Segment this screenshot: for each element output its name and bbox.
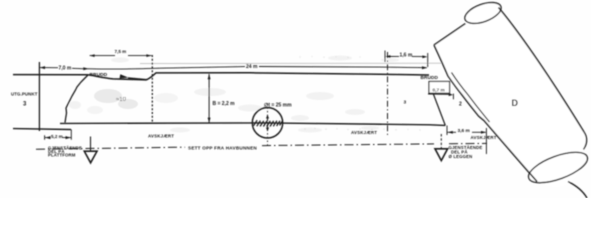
svg-text:UTG.PUNKT: UTG.PUNKT	[11, 92, 38, 97]
svg-text:3: 3	[23, 102, 27, 108]
svg-text:AVSKJÆRT: AVSKJÆRT	[148, 134, 174, 139]
svg-text:2: 2	[459, 102, 462, 108]
svg-text:7,0 m: 7,0 m	[59, 65, 72, 71]
svg-text:PLATTFORM: PLATTFORM	[48, 153, 76, 158]
svg-text:≈10: ≈10	[116, 97, 127, 103]
svg-text:AVSKJÆRT: AVSKJÆRT	[351, 130, 377, 135]
svg-text:24 m: 24 m	[246, 64, 258, 70]
svg-text:∅t = 25 mm: ∅t = 25 mm	[264, 103, 292, 109]
svg-text:0,7 m: 0,7 m	[433, 88, 445, 94]
svg-text:3,6 m: 3,6 m	[458, 128, 470, 134]
svg-text:7,5 m: 7,5 m	[115, 49, 127, 54]
svg-text:BRUDD: BRUDD	[421, 75, 439, 80]
svg-text:B = 2,2 m: B = 2,2 m	[213, 101, 236, 107]
svg-text:5,2 m: 5,2 m	[51, 134, 63, 139]
svg-text:BRUDD: BRUDD	[90, 72, 108, 78]
svg-text:AVSKJÆRT: AVSKJÆRT	[471, 135, 497, 140]
svg-text:D: D	[512, 98, 519, 108]
svg-text:1,6 m: 1,6 m	[400, 53, 413, 59]
svg-text:Ø LEGGEN: Ø LEGGEN	[449, 154, 473, 159]
svg-text:SETT OPP FRA HAVBUNNEN: SETT OPP FRA HAVBUNNEN	[188, 146, 257, 151]
svg-text:3: 3	[404, 100, 407, 106]
